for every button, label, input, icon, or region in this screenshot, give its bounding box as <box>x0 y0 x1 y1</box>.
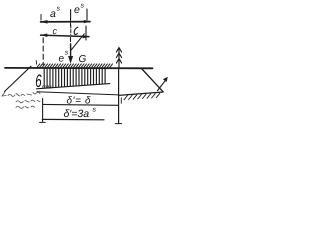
sigma max label <box>36 74 42 87</box>
pressure diagram vertical hatching <box>44 69 105 88</box>
dimension label e^s (top) <box>74 7 79 13</box>
small tick near hatch start <box>35 61 37 65</box>
centre dash-dot axis line <box>70 38 72 48</box>
soil hatching strip above ground line (zigzag row) <box>37 64 113 68</box>
dimension label a^s <box>50 11 55 17</box>
bottom row 2 text: b' = 3a^s <box>64 109 89 117</box>
left edge foot tick <box>40 121 46 123</box>
witness tick middle row 2 <box>70 25 72 35</box>
label G <box>79 55 86 62</box>
triple chevron up arrow on ground line <box>116 48 121 68</box>
bottom dimension box: right edge (plate edge x=118.5) <box>118 69 120 123</box>
witness tick left of e^s (row 1, x=70.5) <box>70 10 72 20</box>
bottom dimension box: bottom line <box>42 118 104 120</box>
up-slope arrow at toe <box>158 80 166 90</box>
arrow ticks at middle of row 1 <box>70 18 72 27</box>
bottom dimension box: middle line <box>43 103 119 106</box>
dimension line row 2 (c + l) <box>41 35 89 37</box>
witness tick right row 2 (extends below line) <box>85 26 87 40</box>
faint handwritten annotation row (left) <box>2 92 40 108</box>
dimension label l (row 2 right, script ell drawn as path) <box>74 27 78 34</box>
arrowhead row2 left <box>40 34 47 38</box>
left edge dashed projection line (plate edge x=43) <box>42 38 44 65</box>
witness tick right of e^s (row 1, x=87) <box>86 9 88 20</box>
ground line <box>5 67 153 69</box>
lower ground hatch ticks <box>124 93 160 100</box>
small tick right of box <box>120 98 122 104</box>
right edge foot tick <box>115 123 121 125</box>
leader line to sigma max <box>5 66 32 91</box>
label e^s (eccentricity, mid) <box>59 56 64 61</box>
oblique leader stroke from dimension end to force line <box>71 34 84 51</box>
slope face diagonal <box>142 69 164 92</box>
witness tick left end row 1 <box>40 15 42 21</box>
bottom dimension box: left edge <box>42 99 44 122</box>
bottom dimension box: top line <box>37 92 118 95</box>
dimension label c (row 2 left) <box>53 29 57 34</box>
force G vertical arrow <box>70 44 72 57</box>
pressure diagram bottom boundary <box>37 84 110 89</box>
arrowhead row1 left <box>41 20 48 24</box>
bottom row 1 text: b' = b <box>67 96 91 103</box>
arrowhead row1 right <box>84 20 90 23</box>
dimension line row 1 (a^s + e^s) <box>41 21 90 23</box>
lower ground line <box>119 92 164 95</box>
arrowhead row2 right <box>83 35 90 38</box>
